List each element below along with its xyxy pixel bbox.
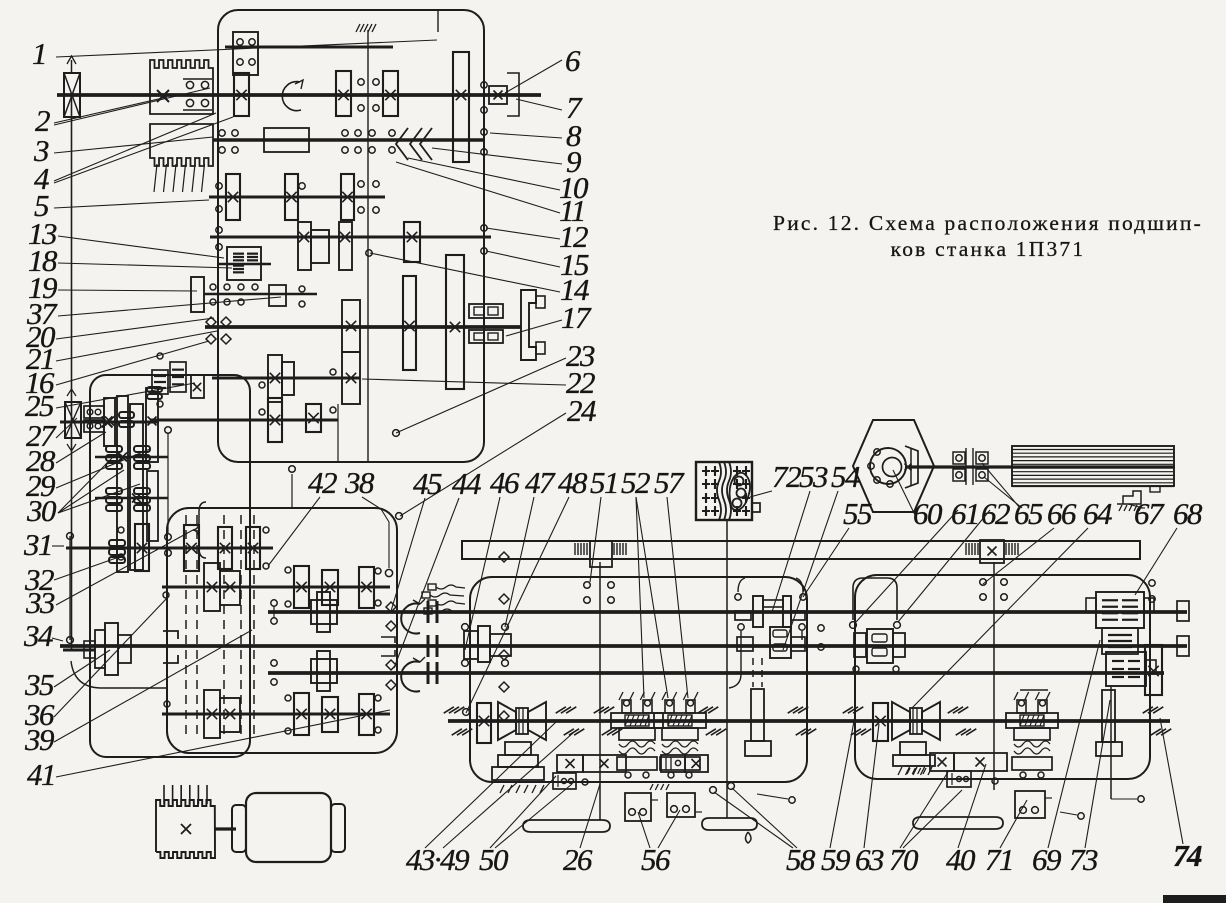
motor pulley steps (95, 623, 131, 675)
pulley P2 mid-left (65, 389, 81, 451)
shaft VIII (212, 377, 360, 380)
tall gear VIIb (446, 255, 464, 389)
label 22 (362, 365, 595, 400)
gear T4 right (873, 703, 888, 741)
label 15 (486, 247, 589, 282)
diamond bearings 20-21 (206, 317, 231, 344)
cluster gear V (298, 222, 352, 270)
svg-text:53: 53 (799, 459, 828, 494)
feed rod XIX (268, 671, 1164, 675)
base plate right (913, 817, 1003, 829)
leader 65b (984, 477, 1022, 508)
svg-text:39: 39 (24, 722, 54, 757)
gear XIV a (294, 566, 309, 608)
label 56 (638, 812, 671, 877)
svg-text:69: 69 (1032, 842, 1061, 877)
svg-text:41: 41 (27, 757, 55, 792)
vertical line top box (337, 404, 339, 462)
coupling T2 (428, 635, 437, 657)
leader 43b (443, 733, 573, 848)
label 29 (26, 449, 150, 503)
gear XIII c (246, 527, 260, 569)
x-box row right (930, 753, 1007, 771)
svg-text:59: 59 (821, 842, 850, 877)
bracket 7 (507, 73, 519, 116)
wall line x368 (356, 24, 376, 462)
x-box row center (557, 755, 626, 772)
label 52 (621, 465, 650, 698)
pattern block right (947, 771, 971, 787)
bearing dot lower (582, 779, 588, 785)
label 51 (590, 465, 618, 582)
shaft V (210, 236, 491, 239)
bevel pair T4 left (498, 702, 546, 740)
svg-text:17: 17 (561, 300, 592, 335)
svg-text:63: 63 (855, 842, 884, 877)
bearing dots box right edge (481, 82, 487, 155)
hanger staple T2 right-box (850, 578, 1156, 628)
right end block T2 (1177, 636, 1189, 656)
spring pair T4 e (788, 707, 817, 735)
vertical rod right box (1110, 686, 1112, 799)
bearing dots T3 start (271, 660, 277, 685)
svg-text:45: 45 (413, 466, 442, 501)
gear T4 left (477, 703, 491, 743)
label 2 (35, 97, 167, 138)
bearing dots under rack blocks (584, 579, 1008, 604)
motor clutch comb lower (150, 124, 213, 166)
bearing pair 62-65 (973, 448, 988, 485)
label 58 (714, 792, 816, 877)
motor coupling (215, 827, 236, 830)
bearing dots IV (216, 183, 305, 212)
svg-text:55: 55 (843, 496, 872, 531)
magnetic clutch 72 (696, 462, 760, 520)
bearing dots XIII (263, 527, 269, 569)
label 57 (654, 465, 688, 698)
disc pack d1 (109, 540, 125, 563)
apron shaft XX (448, 719, 1170, 723)
diamond bearings T1 left (386, 602, 396, 631)
disc pack b2 (134, 446, 150, 469)
bearing row VI (210, 284, 258, 305)
jaw coupling XV (163, 631, 178, 663)
leader 56b (658, 810, 680, 848)
motor clutch comb upper (150, 60, 213, 114)
label 43·49 (406, 722, 556, 877)
belt line (71, 95, 73, 649)
bearing dots 37 (299, 286, 305, 307)
svg-text:1: 1 (32, 36, 46, 71)
label 32 (24, 557, 119, 597)
clutch shaft XI (95, 456, 168, 458)
norton gear stack (1086, 592, 1156, 686)
svg-text:26: 26 (563, 842, 593, 877)
base plate center (523, 820, 610, 832)
shift dashed lines 53 (753, 658, 762, 687)
roof hatch right (1020, 689, 1048, 691)
bracket marks T2 left (381, 637, 395, 656)
label 69 (1032, 640, 1100, 877)
column gear C (130, 404, 143, 570)
label 30 (26, 456, 114, 528)
pulley P1 top-left (64, 56, 80, 117)
coupling 6 (489, 86, 507, 104)
svg-text:71: 71 (985, 842, 1013, 877)
pedestal T4 left (492, 742, 544, 793)
label 9 (432, 144, 581, 179)
left comb cluster (152, 362, 186, 394)
clutch cross X (102, 417, 113, 428)
svg-text:40: 40 (946, 842, 976, 877)
page edge mark (1163, 895, 1226, 903)
svg-text:65: 65 (1014, 496, 1043, 531)
bearing stud 31-34 (67, 533, 74, 644)
bearing dots XIV (163, 567, 381, 607)
cluster gear VII-VIII (342, 300, 360, 404)
bearing dots 53-54 (735, 578, 806, 630)
clutch cross on shaft II (157, 90, 169, 102)
column gear A (104, 398, 115, 446)
slider block shaft III (264, 128, 309, 152)
label 64 (912, 496, 1112, 708)
overrunning clutch T1 (401, 599, 425, 634)
rack bar (462, 541, 1140, 559)
gear on IV a (226, 174, 240, 220)
small circles 58 (710, 783, 735, 794)
shaft IV (209, 196, 385, 199)
disc pack a2 (147, 387, 162, 399)
feed shaft XIII (66, 547, 273, 550)
label 63 (855, 724, 884, 877)
svg-text:68: 68 (1173, 496, 1203, 531)
label 23 (396, 338, 595, 433)
svg-text:47: 47 (525, 465, 556, 500)
cluster T1 in box (311, 592, 337, 632)
svg-text:56: 56 (641, 842, 671, 877)
slider clutch right T2 (854, 629, 905, 663)
label 27 (26, 418, 77, 453)
label 33 (25, 530, 193, 620)
label 62 (898, 496, 1010, 622)
spring pair T4 g (948, 707, 977, 735)
handwheel hexagon 60 (853, 420, 934, 512)
leader 30b (58, 470, 124, 513)
label 37 (26, 296, 281, 331)
svg-text:50: 50 (479, 842, 509, 877)
small circles right (1060, 796, 1144, 819)
base plate right-of-center (702, 818, 757, 830)
svg-text:51: 51 (590, 465, 618, 500)
hanger box right (1015, 791, 1052, 818)
electric motor (232, 793, 345, 862)
bearing block 28 (84, 406, 104, 432)
svg-text:ков станка 1П371: ков станка 1П371 (891, 237, 1086, 261)
label 61 (856, 496, 979, 622)
shaft II spindle-drive (57, 93, 541, 97)
bearing block 1 (233, 32, 258, 75)
apron housing center (470, 577, 807, 782)
label 26 (563, 784, 600, 877)
bearing dots column (118, 527, 124, 560)
gear XIII a (184, 525, 199, 571)
worm unit right (1006, 692, 1058, 778)
svg-text:57: 57 (654, 465, 685, 500)
vertical rod from clutch 72 (726, 521, 728, 818)
label 14 (370, 253, 589, 307)
pulley housing arc (71, 661, 166, 688)
label 4 (34, 113, 216, 196)
label 65 (982, 463, 1043, 531)
block 37 (269, 285, 286, 306)
feed shaft XIV (162, 586, 390, 589)
pulley hub box (84, 641, 95, 658)
label 1 (32, 36, 437, 71)
leadscrew hatched block (1012, 446, 1174, 492)
label 55 (803, 496, 872, 597)
label 47 (505, 465, 556, 627)
gear on IV c (341, 174, 354, 220)
spring pair T4 h (1143, 707, 1172, 735)
svg-text:48: 48 (558, 465, 588, 500)
label 71 (985, 800, 1027, 877)
gear T3 right (1145, 645, 1162, 695)
bearing stud box bottom (289, 466, 296, 508)
label 40 (946, 764, 986, 877)
label 31 (23, 527, 64, 562)
disc pack b1 (106, 446, 122, 469)
svg-text:54: 54 (831, 459, 860, 494)
hanger line block1 (437, 10, 439, 32)
spring pair T4 a (444, 707, 473, 735)
disc pack c1 (106, 488, 122, 511)
svg-text:46: 46 (490, 465, 520, 500)
spring pair T4 c (594, 707, 623, 735)
right end block T1 (1177, 601, 1189, 621)
coupling T3 (428, 662, 437, 684)
label 28 (26, 432, 106, 478)
coupling T1 (428, 601, 437, 623)
bearing pair 2a (183, 79, 212, 89)
svg-text:72: 72 (772, 459, 801, 494)
svg-text:42: 42 (308, 465, 337, 500)
bearing dots shaft II right (358, 79, 379, 111)
herringbone gear 9-11 (396, 128, 432, 160)
stub shaft 6 right (507, 94, 541, 97)
bearing dot wall (366, 250, 372, 256)
svg-text:67: 67 (1134, 496, 1165, 531)
gear XVII a (294, 693, 309, 735)
brush leads under clutch (154, 164, 205, 192)
gear XIV b (322, 570, 338, 605)
selection brace 33 (193, 502, 206, 558)
bearing dots lower IX (330, 369, 336, 413)
label 59 (821, 716, 855, 877)
overrunning clutch T3 (401, 657, 425, 692)
label 68 (1135, 496, 1203, 595)
label 39 (24, 630, 252, 757)
label 74 (1160, 718, 1202, 873)
bearing dots XVII (164, 695, 381, 734)
svg-text:60: 60 (913, 496, 943, 531)
svg-text:73: 73 (1069, 842, 1098, 877)
shaft VI (204, 293, 317, 295)
svg-text:62: 62 (981, 496, 1010, 531)
gear XIV c (359, 567, 374, 608)
svg-text:30: 30 (26, 493, 57, 528)
shaft IX (150, 419, 338, 422)
disc pack c2 (134, 488, 150, 511)
label 48 (466, 465, 588, 713)
svg-text:24: 24 (567, 393, 596, 428)
clutch column housing (90, 375, 250, 757)
feed gearbox housing (167, 508, 397, 753)
label 44 (394, 466, 481, 668)
bearing stud T1 start (271, 600, 277, 624)
svg-text:34: 34 (23, 618, 53, 653)
leader 50b (495, 784, 572, 848)
label 8 (490, 118, 582, 153)
tall gear Z4 (453, 52, 469, 162)
cluster XIV (204, 563, 240, 611)
spring pair T4 f (843, 707, 872, 735)
rack block right (966, 540, 1018, 563)
clutch box 25 (191, 375, 204, 398)
chuck 17 (521, 290, 545, 360)
spindle VII (205, 325, 521, 329)
label 7 (516, 90, 583, 125)
bearing dot 16 (157, 353, 163, 407)
bearing set IIIb (342, 130, 361, 153)
ground symbol center (648, 782, 669, 790)
gear Z2 on shaft II (336, 71, 351, 116)
support bracket 67 (1117, 491, 1142, 511)
spring wire curls 46 (422, 584, 465, 614)
lever bar right (1096, 690, 1122, 756)
circle bearings 46-47 (393, 430, 509, 716)
label 41 (27, 710, 390, 792)
label 38 (344, 465, 389, 568)
label 67 (1128, 496, 1165, 531)
shaft I top (225, 46, 393, 49)
label 18 (28, 243, 232, 278)
label 21 (26, 331, 217, 376)
label 12 (486, 219, 588, 254)
label 16 (25, 341, 209, 400)
label 6 (505, 43, 581, 93)
label 73 (1069, 700, 1110, 877)
tall gear VIIa (403, 276, 416, 370)
svg-text:6: 6 (565, 43, 581, 78)
bearing dot 24 target (396, 513, 403, 520)
pattern block center (661, 755, 708, 772)
column gear E (135, 524, 149, 571)
rack block left (575, 541, 626, 567)
gear flange 19 (191, 277, 204, 312)
svg-text:44: 44 (452, 466, 481, 501)
svg-text:58: 58 (786, 842, 816, 877)
gear Z3 on shaft II (383, 71, 398, 116)
clutch assembly 53-54 lower (729, 627, 805, 688)
diamond column x504 (499, 552, 509, 721)
label 60 (893, 470, 943, 531)
label 13 (28, 216, 224, 258)
label 36 (24, 597, 168, 732)
svg-text:43·49: 43·49 (406, 842, 469, 877)
spindle bearing box 17b (469, 330, 503, 343)
bearing dot right (992, 778, 998, 784)
label 5 (34, 188, 209, 223)
column body rib (147, 471, 158, 541)
label 35 (24, 650, 110, 702)
motor shaft stub (63, 649, 95, 652)
pattern block lower (553, 773, 576, 789)
diamond bearings T3 left (386, 660, 396, 690)
gear IX b (306, 404, 321, 432)
label 20 (26, 318, 214, 354)
bearing pair 2b (183, 99, 212, 110)
cluster XVII (204, 690, 240, 738)
leader 58b (732, 788, 797, 848)
label 54 (783, 459, 860, 650)
label 70 (889, 772, 948, 877)
leader 67b (1140, 507, 1145, 509)
lever bar center (745, 689, 771, 756)
gear on IV b (285, 174, 298, 220)
hanger box 56b (667, 793, 702, 817)
spring pair T4 d (698, 707, 727, 735)
svg-text:66: 66 (1047, 496, 1077, 531)
column gear D (146, 388, 158, 462)
shift fork dashed lines (186, 515, 254, 735)
bearing dots IV right (358, 181, 379, 213)
disc pack a1 (119, 412, 134, 427)
hanger box 56a (625, 793, 658, 821)
gear XVII c (359, 694, 374, 735)
apron housing right (855, 575, 1150, 779)
gear XVII b (322, 697, 338, 732)
bearing pair 61 (953, 448, 966, 485)
electromagnetic clutch block motor (156, 785, 215, 858)
friction clutch 13-18 (227, 247, 261, 280)
speed gearbox housing (218, 10, 484, 462)
spindle bearing box 17a (469, 304, 503, 318)
circle bearing 38 target (385, 569, 392, 576)
label 50 (479, 776, 556, 877)
gear XIII b (218, 527, 232, 569)
svg-text:38: 38 (344, 465, 375, 500)
label 46 (465, 465, 520, 650)
label 53 (772, 459, 828, 612)
svg-text:31: 31 (23, 527, 52, 562)
worm unit center-b (654, 692, 706, 778)
label 11 (396, 162, 585, 228)
gear Z1 on shaft II (234, 73, 249, 116)
oil drop (746, 832, 752, 843)
leadscrew shaft XVIII (268, 610, 1187, 614)
svg-text:Рис. 12. Схема расположения по: Рис. 12. Схема расположения подшип- (773, 211, 1203, 235)
slider gear T2 center (464, 626, 511, 662)
leader 30c (58, 484, 140, 513)
label 42 (268, 465, 337, 566)
gear V right (404, 222, 420, 262)
label 25 (25, 383, 195, 423)
leader 4b (54, 117, 233, 183)
label 24 (400, 393, 596, 516)
svg-text:74: 74 (1173, 838, 1202, 873)
shaft Vb stub (219, 263, 271, 265)
gear IX a (268, 398, 282, 442)
